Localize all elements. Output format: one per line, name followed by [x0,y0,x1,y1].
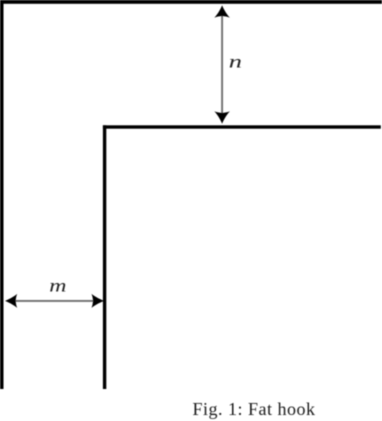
left border line of hook [0,0,4,389]
dimension arrow m (horizontal double arrow) [5,294,104,308]
inner vertical line of hook [103,125,106,389]
dimension arrow n (vertical double arrow) [214,5,230,124]
svg-text:Fig. 1: Fat hook: Fig. 1: Fat hook [193,399,316,419]
svg-text:n: n [229,52,242,72]
top border line of hook [0,0,382,4]
svg-text:m: m [49,276,66,296]
inner horizontal line of hook [103,125,381,128]
